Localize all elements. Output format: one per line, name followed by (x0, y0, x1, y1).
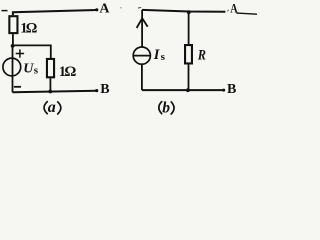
svg-text:A: A (99, 1, 110, 16)
svg-text:B: B (227, 82, 236, 97)
svg-text:A: A (230, 3, 238, 16)
svg-text:s: s (161, 51, 166, 63)
svg-text:a: a (48, 99, 56, 116)
svg-text:Ω: Ω (26, 21, 38, 37)
svg-text:U: U (23, 61, 34, 76)
svg-text:b: b (162, 99, 170, 116)
svg-text:B: B (100, 82, 109, 97)
svg-text:s: s (34, 65, 39, 77)
svg-text:Ω: Ω (64, 64, 76, 80)
svg-text:R: R (197, 46, 206, 62)
